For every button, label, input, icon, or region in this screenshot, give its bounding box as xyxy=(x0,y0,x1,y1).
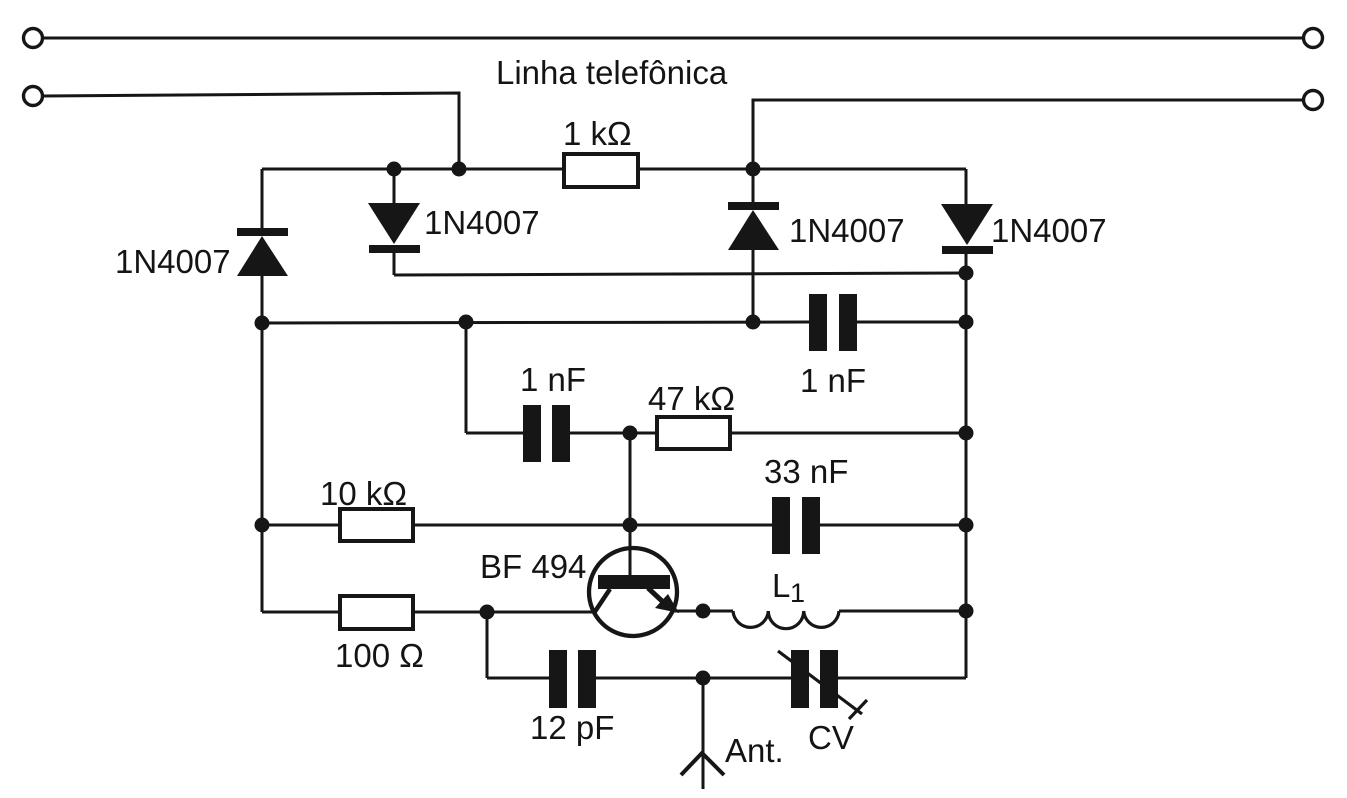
node dot right rail row 525 xyxy=(959,518,974,533)
inductor L1 xyxy=(733,611,839,629)
wire phone line top xyxy=(43,37,1303,40)
wire top rail left of R1 xyxy=(262,168,564,171)
node dot collector row at x=703 xyxy=(696,604,711,619)
wire bottom row middle xyxy=(596,677,792,680)
svg-text:Linha telefônica: Linha telefônica xyxy=(496,54,728,91)
svg-text:Ant.: Ant. xyxy=(725,732,784,769)
svg-text:1N4007: 1N4007 xyxy=(991,212,1107,249)
node dot right rail row 611 xyxy=(959,604,974,619)
wire bottom row left xyxy=(487,677,550,680)
capacitor C1 1 nF (top) xyxy=(809,294,857,351)
wire left rail lower (D1 anode down to 100-ohm row) xyxy=(261,276,264,612)
node dot row 323 at x=466 xyxy=(459,315,474,330)
wire phone line bottom right segment xyxy=(753,100,1303,169)
svg-text:1: 1 xyxy=(790,578,805,608)
terminal bottom-left xyxy=(24,87,43,106)
wire C2 to 47k node xyxy=(569,432,655,435)
wire row D2-D4 bottoms xyxy=(394,273,966,275)
wire 47k to right rail xyxy=(730,432,966,435)
svg-text:1N4007: 1N4007 xyxy=(424,204,540,241)
svg-text:1N4007: 1N4007 xyxy=(115,243,231,280)
svg-text:1 nF: 1 nF xyxy=(520,361,586,398)
wire C2 left lead xyxy=(466,432,524,435)
capacitor C3 33 nF xyxy=(772,497,820,554)
wire D2 bottom lead xyxy=(393,251,396,275)
svg-text:BF 494: BF 494 xyxy=(480,548,586,585)
node dot row 323 at D3 bottom xyxy=(746,315,761,330)
diode D4 1N4007 xyxy=(941,204,993,254)
node dot top rail at line B xyxy=(452,162,467,177)
CV trimmer arrow xyxy=(778,651,867,719)
wire right rail (D4 anode down to bottom row) xyxy=(965,252,968,678)
diode D2 1N4007 xyxy=(368,203,420,253)
capacitor C4 12 pF xyxy=(549,650,596,708)
resistor R4 100 Ohm xyxy=(340,596,413,629)
terminal top-left xyxy=(24,29,43,48)
svg-text:1 kΩ: 1 kΩ xyxy=(563,115,632,152)
capacitor C2 1 nF (middle) xyxy=(523,405,570,462)
node dot right rail row 433 xyxy=(959,426,974,441)
terminal bottom-right xyxy=(1304,91,1323,110)
wire bottom row right xyxy=(837,677,966,680)
svg-text:1N4007: 1N4007 xyxy=(789,212,905,249)
terminal top-right xyxy=(1304,29,1323,48)
wire 33nF to right rail xyxy=(820,524,966,527)
resistor R2 47 kOhm xyxy=(657,417,730,449)
node dot right rail row 273 xyxy=(959,266,974,281)
wire top rail right of R1 xyxy=(638,168,966,171)
wire node row y=323 left part xyxy=(262,322,809,323)
wire 100-ohm row to transistor xyxy=(413,611,594,614)
svg-text:1 nF: 1 nF xyxy=(800,362,866,399)
node dot emitter row at x=487 xyxy=(480,605,495,620)
wire D2 top lead xyxy=(393,169,396,204)
wire base vertical xyxy=(629,433,632,577)
node dot left rail row 323 xyxy=(255,316,270,331)
svg-text:L: L xyxy=(772,567,790,604)
svg-text:100 Ω: 100 Ω xyxy=(335,637,424,674)
wire vertical drop to C2 xyxy=(465,322,468,433)
diode D1 1N4007 xyxy=(237,228,288,276)
node dot top rail at D2 xyxy=(387,162,402,177)
transistor Q1 BF 494 xyxy=(589,548,679,636)
node dot bottom row at antenna xyxy=(696,671,711,686)
wire D3 top lead xyxy=(752,169,755,203)
svg-text:47 kΩ: 47 kΩ xyxy=(648,380,735,417)
resistor R1 1 kOhm xyxy=(564,154,638,187)
wire drop from emitter row to bottom row xyxy=(486,612,489,678)
svg-text:33 nF: 33 nF xyxy=(764,453,848,490)
wire antenna lead xyxy=(702,678,705,789)
wire node row y=323 right part xyxy=(857,321,966,324)
wire D4 top lead xyxy=(965,169,968,205)
node dot 47k base node xyxy=(623,426,638,441)
node dot base row 525 xyxy=(623,518,638,533)
wire 10k row middle xyxy=(413,524,773,527)
diode D3 1N4007 xyxy=(728,202,779,250)
wire emitter to L1 xyxy=(672,610,733,613)
wire phone line bottom left segment xyxy=(43,93,459,169)
antenna symbol xyxy=(681,753,724,775)
node dot top rail at D3 xyxy=(746,162,761,177)
svg-text:CV: CV xyxy=(808,719,854,756)
svg-text:12 pF: 12 pF xyxy=(530,709,614,746)
svg-text:10 kΩ: 10 kΩ xyxy=(320,475,407,512)
capacitor CV (variable) xyxy=(791,650,838,708)
node dot right rail row 322 xyxy=(959,315,974,330)
wire 100-ohm row left xyxy=(262,611,338,614)
resistor R3 10 kOhm xyxy=(340,509,413,541)
wire L1 to right rail xyxy=(839,610,966,613)
wire D3 bottom lead xyxy=(752,250,755,323)
wire left rail upper (to D1 cathode) xyxy=(261,169,264,230)
node dot left rail row 525 xyxy=(255,518,270,533)
wire 10k row left xyxy=(262,524,338,527)
